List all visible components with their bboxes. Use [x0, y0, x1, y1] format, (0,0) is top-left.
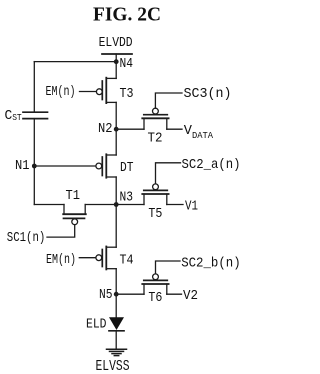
- svg-text:C: C: [5, 108, 13, 124]
- wire T5 gate to SC2_a(n): [156, 163, 181, 184]
- svg-text:SC3(n): SC3(n): [184, 86, 232, 102]
- svg-text:T3: T3: [120, 86, 134, 102]
- wire DT to T4: [115, 177, 117, 247]
- wire ELVDD bar to N4: [115, 54, 117, 62]
- wire left rail capacitor to T1 corner: [33, 119, 35, 205]
- label C_ST: [5, 108, 23, 124]
- svg-text:T5: T5: [148, 206, 162, 222]
- wire EM(n) to T4 gate: [79, 257, 96, 259]
- svg-text:N4: N4: [120, 56, 134, 72]
- svg-text:ELD: ELD: [86, 316, 107, 332]
- svg-text:ELVDD: ELVDD: [99, 35, 133, 51]
- wire N5 to T6: [116, 293, 144, 295]
- wire T6 gate to SC2_b(n): [156, 261, 181, 274]
- svg-text:T1: T1: [66, 188, 81, 204]
- wire T3 to DT: [115, 102, 117, 155]
- node N2: [114, 127, 119, 132]
- svg-text:N3: N3: [120, 189, 134, 205]
- wire T1 gate to SC1(n): [47, 225, 75, 237]
- transistor DT: [96, 154, 116, 177]
- capacitor C_ST: [23, 111, 48, 113]
- svg-text:V2: V2: [183, 288, 198, 304]
- diode ELD: [109, 317, 124, 331]
- transistor T2: [142, 108, 168, 129]
- label VDATA: [184, 123, 214, 141]
- svg-text:T4: T4: [120, 253, 134, 269]
- transistor T5: [142, 184, 168, 205]
- svg-text:DATA: DATA: [192, 131, 214, 141]
- svg-text:SC2_a(n): SC2_a(n): [182, 157, 241, 173]
- wire T1 right to N3: [85, 204, 116, 206]
- wire left rail upper to capacitor: [33, 62, 35, 113]
- wire T2 gate to SC3(n): [155, 93, 182, 108]
- wire T2 to VDATA: [167, 128, 182, 130]
- node N5: [114, 292, 119, 297]
- wire T5 to V1: [167, 204, 183, 206]
- svg-text:T2: T2: [148, 130, 163, 146]
- svg-text:N5: N5: [99, 287, 113, 303]
- wire T6 to V2: [167, 293, 182, 295]
- node N4: [114, 59, 119, 64]
- wire EM(n) to T3 gate: [80, 91, 97, 93]
- svg-text:SC1(n): SC1(n): [7, 230, 46, 246]
- transistor T1: [63, 205, 86, 225]
- node N1: [32, 164, 37, 169]
- svg-text:ELVSS: ELVSS: [96, 358, 130, 374]
- wire N3 to T5: [116, 204, 144, 206]
- wire top horizontal N4 to left rail: [34, 61, 116, 63]
- svg-text:FIG. 2C: FIG. 2C: [93, 5, 161, 26]
- wire N2 to T2: [116, 128, 144, 130]
- ground ELVSS: [107, 349, 127, 355]
- wire N4 to T3: [115, 62, 117, 79]
- transistor T3: [96, 78, 116, 103]
- wire T1 left from rail: [34, 204, 64, 206]
- node N3: [114, 202, 119, 207]
- svg-text:T6: T6: [148, 290, 162, 306]
- svg-text:N2: N2: [98, 121, 113, 137]
- svg-text:N1: N1: [15, 158, 30, 174]
- wire T4 to diode: [115, 269, 117, 318]
- svg-text:DT: DT: [120, 160, 134, 176]
- wire diode to ground: [115, 331, 117, 349]
- svg-text:EM(n): EM(n): [46, 252, 76, 268]
- svg-text:V1: V1: [185, 198, 198, 214]
- transistor T4: [96, 247, 116, 270]
- wire N1 to DT gate: [34, 165, 96, 167]
- svg-text:EM(n): EM(n): [46, 84, 76, 100]
- power rail ELVDD bar: [102, 53, 132, 55]
- transistor T6: [142, 274, 168, 294]
- svg-text:ST: ST: [12, 113, 22, 123]
- svg-text:SC2_b(n): SC2_b(n): [181, 255, 240, 271]
